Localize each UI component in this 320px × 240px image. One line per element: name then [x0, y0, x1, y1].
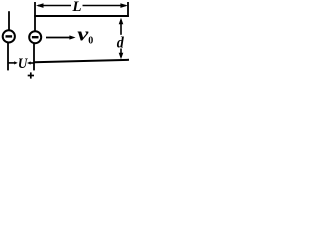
svg-text:L: L — [71, 0, 81, 15]
svg-text:0: 0 — [88, 35, 93, 46]
svg-text:U: U — [18, 56, 29, 72]
svg-text:d: d — [117, 34, 124, 51]
